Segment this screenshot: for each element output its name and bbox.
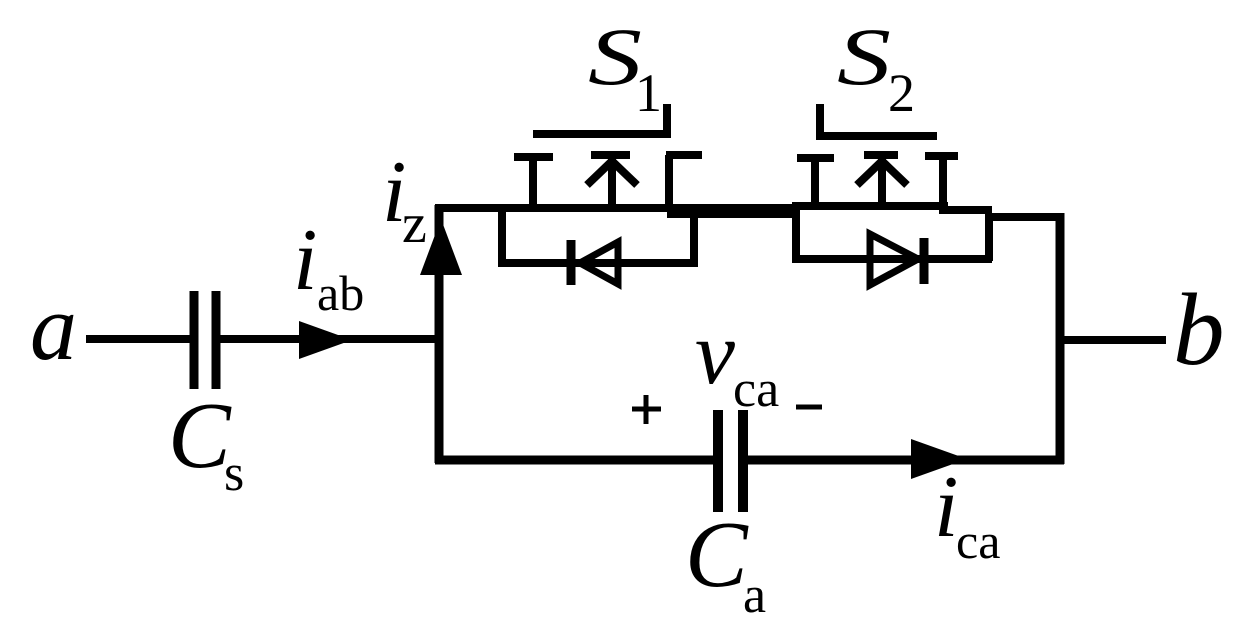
- S2 substrate cap: [864, 151, 898, 159]
- wire Cs to node junction: [220, 335, 443, 343]
- svg-text:C: C: [168, 384, 232, 488]
- S1 left terminal cap: [514, 153, 553, 161]
- S1 substrate shaft: [608, 159, 616, 212]
- right vertical wire to node b: [1056, 213, 1065, 464]
- svg-text:v: v: [695, 304, 735, 403]
- svg-text:z: z: [402, 193, 427, 255]
- current arrow i_ab: [299, 321, 352, 359]
- S1 gate bar: [533, 130, 671, 138]
- S1 gate riser: [663, 104, 671, 138]
- S2 left terminal lead: [811, 158, 819, 209]
- capacitor Cs right plate: [212, 291, 221, 389]
- svg-text:C: C: [685, 503, 749, 607]
- svg-text:1: 1: [635, 63, 662, 123]
- S1 left terminal lead: [529, 157, 537, 212]
- S2 gate bar: [816, 132, 937, 140]
- S2 gate riser: [816, 104, 824, 140]
- S1 body-diode cathode bar: [567, 240, 576, 285]
- S2 right terminal lead: [939, 156, 947, 214]
- current arrow i_ca: [911, 439, 967, 479]
- plus sign of v_ca: [632, 395, 661, 424]
- S2 right terminal cap: [925, 152, 958, 160]
- S1 substrate arrow chevron right: [613, 162, 637, 185]
- S2 substrate arrow chevron left: [857, 162, 881, 185]
- S2 source-drain rail: [792, 202, 948, 210]
- svg-text:ca: ca: [733, 361, 779, 418]
- S2 substrate arrow chevron right: [883, 162, 907, 185]
- top rail middle segment: [667, 210, 797, 218]
- S2 body-diode left leg: [792, 204, 800, 261]
- svg-text:i: i: [934, 459, 958, 556]
- wire to b terminal: [1060, 336, 1166, 344]
- S2 body-diode cathode bar: [920, 238, 929, 284]
- S1 body-diode triangle: [580, 242, 618, 284]
- bottom rail left of Ca: [435, 456, 713, 465]
- minus sign of v_ca: [796, 405, 822, 410]
- S1 body-diode rail: [498, 259, 698, 267]
- bottom rail right of Ca: [748, 456, 1064, 465]
- capacitor Ca left plate: [713, 410, 723, 512]
- S1 body-diode left leg: [498, 208, 506, 263]
- svg-text:ab: ab: [317, 265, 364, 321]
- top rail right segment: [985, 213, 1062, 221]
- svg-text:s: s: [224, 445, 244, 502]
- S2 body-diode triangle: [870, 234, 918, 285]
- S1 right terminal lead: [665, 155, 673, 212]
- S1 substrate cap: [591, 151, 630, 159]
- S2 drain exit wire: [939, 206, 992, 214]
- svg-text:S: S: [588, 11, 642, 102]
- current arrow i_z: [420, 219, 462, 275]
- svg-text:S: S: [837, 11, 891, 102]
- svg-text:a: a: [743, 567, 766, 624]
- S1 right terminal cap: [666, 151, 702, 159]
- capacitor Cs left plate: [190, 291, 199, 389]
- junction vertical wire (node between Cs, switch pair, Ca): [435, 205, 444, 463]
- svg-text:a: a: [30, 276, 77, 380]
- svg-text:ca: ca: [956, 513, 1000, 569]
- capacitor Ca right plate: [738, 410, 748, 512]
- S2 substrate shaft: [878, 159, 886, 209]
- S2 body-diode rail: [792, 255, 992, 263]
- S2 left terminal cap: [797, 154, 834, 162]
- svg-text:i: i: [293, 212, 317, 309]
- svg-text:2: 2: [888, 63, 915, 123]
- S1 body-diode right leg: [690, 210, 698, 263]
- top rail left segment: [435, 204, 800, 212]
- S1 substrate arrow chevron left: [587, 162, 611, 185]
- wire a to Cs: [86, 335, 191, 343]
- S2 body-diode right leg: [985, 213, 993, 261]
- svg-text:b: b: [1173, 273, 1225, 387]
